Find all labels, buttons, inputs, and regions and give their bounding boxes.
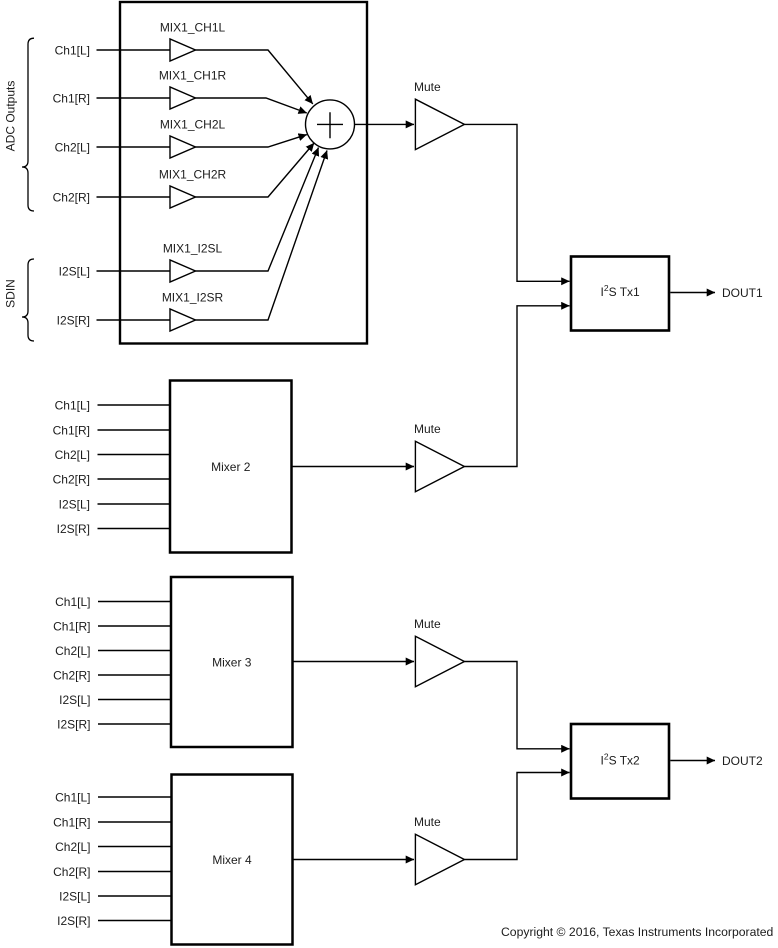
wire I2S Tx2 to DOUT2 <box>670 760 715 762</box>
label Ch1[L] (mixer3) <box>55 595 90 609</box>
summing node <box>306 100 355 149</box>
wire Ch2[R] into mixer2 <box>98 478 171 480</box>
svg-text:DOUT2: DOUT2 <box>722 754 763 768</box>
label Mixer 2 <box>211 460 251 474</box>
svg-text:Ch2[R]: Ch2[R] <box>53 865 90 879</box>
svg-text:I2S[R]: I2S[R] <box>57 522 90 536</box>
wire MIX1_I2SL to summing node <box>196 148 319 272</box>
label MIX1_CH1L <box>160 21 226 35</box>
svg-text:Ch2[L]: Ch2[L] <box>55 140 90 154</box>
svg-text:Mute: Mute <box>414 80 441 94</box>
label I2S[L] (mixer2) <box>59 497 90 511</box>
svg-text:MIX1_CH1R: MIX1_CH1R <box>159 69 227 83</box>
I2S Tx2 block <box>571 724 669 799</box>
svg-text:MIX1_CH2R: MIX1_CH2R <box>159 168 227 182</box>
mixer 3 block <box>171 577 293 747</box>
wire I2S[L] into mixer2 <box>98 503 171 505</box>
svg-text:Ch1[L]: Ch1[L] <box>55 595 90 609</box>
amplifier MIX1_CH1R <box>170 87 196 109</box>
wire I2S[L] into mixer3 <box>98 699 171 701</box>
brace ADC Outputs <box>22 38 34 211</box>
label I2S[R] (mixer2) <box>57 522 90 536</box>
svg-text:Ch1[R]: Ch1[R] <box>53 815 90 829</box>
svg-text:ADC Outputs: ADC Outputs <box>4 81 18 152</box>
wire mute3 to I2S Tx2 <box>464 662 569 749</box>
wire I2S[R] into mixer2 <box>98 528 171 530</box>
wire Ch2[L] into mixer4 <box>98 846 172 848</box>
wire Ch2[R] into mixer4 <box>98 871 172 873</box>
svg-text:I2S[L]: I2S[L] <box>59 264 90 278</box>
wire mixer4 to mute4 <box>293 859 415 861</box>
label I2S[L] (mixer4) <box>59 889 90 903</box>
amplifier MIX1_I2SR <box>170 309 196 331</box>
wire MIX1_CH1L to summing node <box>196 50 313 104</box>
svg-text:MIX1_I2SR: MIX1_I2SR <box>162 291 224 305</box>
svg-text:MIX1_I2SL: MIX1_I2SL <box>163 242 223 256</box>
wire Ch1[L] into mixer4 <box>98 796 172 798</box>
wire Ch1[R] into mixer1 <box>97 97 171 99</box>
svg-text:Ch2[L]: Ch2[L] <box>55 840 90 854</box>
wire mixer3 to mute3 <box>293 661 414 663</box>
svg-text:Ch1[L]: Ch1[L] <box>55 398 90 412</box>
wire mixer2 to mute2 <box>292 466 414 468</box>
svg-text:Mute: Mute <box>414 815 441 829</box>
label I2S[R] (mixer1) <box>57 313 90 327</box>
label I2S[R] (mixer3) <box>57 717 90 731</box>
svg-text:Ch2[L]: Ch2[L] <box>55 644 90 658</box>
svg-text:I2S[L]: I2S[L] <box>59 889 90 903</box>
wire Ch1[R] into mixer3 <box>98 625 171 627</box>
svg-text:I2S[L]: I2S[L] <box>59 693 90 707</box>
label I2S[L] (mixer1) <box>59 264 90 278</box>
wire I2S[L] into mixer4 <box>98 895 172 897</box>
label Ch1[L] (mixer2) <box>55 398 90 412</box>
svg-text:Ch2[L]: Ch2[L] <box>55 448 90 462</box>
wire Ch2[L] into mixer1 <box>97 146 171 148</box>
label Ch2[L] (mixer1) <box>55 140 90 154</box>
svg-text:Mute: Mute <box>414 422 441 436</box>
label I2S Tx2 <box>601 752 641 768</box>
wire I2S[R] into mixer3 <box>98 723 171 725</box>
svg-text:Mute: Mute <box>414 617 441 631</box>
wire Ch2[R] into mixer3 <box>98 674 171 676</box>
label Ch1[R] (mixer2) <box>53 423 90 437</box>
label Ch1[R] (mixer4) <box>53 815 90 829</box>
svg-text:Ch2[R]: Ch2[R] <box>53 472 90 486</box>
svg-text:MIX1_CH1L: MIX1_CH1L <box>160 21 226 35</box>
svg-text:Copyright © 2016, Texas Instru: Copyright © 2016, Texas Instruments Inco… <box>501 925 773 939</box>
label Mute (mute4) <box>414 815 441 829</box>
label MIX1_I2SR <box>162 291 224 305</box>
label MIX1_CH2R <box>159 168 227 182</box>
wire Ch1[L] into mixer3 <box>98 601 171 603</box>
label ADC Outputs <box>4 81 18 152</box>
svg-text:Ch2[R]: Ch2[R] <box>53 668 90 682</box>
label Mute (mute3) <box>414 617 441 631</box>
label Mute (mute2) <box>414 422 441 436</box>
label Ch2[L] (mixer4) <box>55 840 90 854</box>
wire mute1 to I2S Tx1 <box>464 124 569 281</box>
wire I2S Tx1 to DOUT1 <box>670 292 715 294</box>
mixer 4 block <box>172 775 293 945</box>
svg-text:Ch1[R]: Ch1[R] <box>53 619 90 633</box>
amplifier mute2 <box>415 441 464 491</box>
label Ch1[L] (mixer1) <box>55 43 90 57</box>
label Ch2[R] (mixer1) <box>53 190 90 204</box>
wire MIX1_CH2L to summing node <box>196 135 307 147</box>
label SDIN <box>4 279 18 308</box>
wire Ch1[R] into mixer4 <box>98 821 172 823</box>
amplifier MIX1_I2SL <box>170 260 196 282</box>
svg-text:Mixer 3: Mixer 3 <box>212 655 252 669</box>
svg-text:Mixer 4: Mixer 4 <box>212 853 252 867</box>
label MIX1_CH2L <box>160 118 226 132</box>
amplifier mute3 <box>415 636 464 686</box>
label DOUT2 <box>722 754 763 768</box>
wire I2S[R] into mixer1 <box>97 319 171 321</box>
mixer 2 block <box>170 381 292 553</box>
svg-text:Ch1[L]: Ch1[L] <box>55 43 90 57</box>
label Mute (mute1) <box>414 80 441 94</box>
label Ch1[R] (mixer1) <box>53 91 90 105</box>
label Ch1[L] (mixer4) <box>55 790 90 804</box>
wire Ch1[L] into mixer2 <box>98 404 171 406</box>
wire MIX1_CH1R to summing node <box>196 98 307 113</box>
amplifier MIX1_CH2R <box>170 186 196 208</box>
wire Ch1[R] into mixer2 <box>98 429 171 431</box>
amplifier mute1 <box>415 99 464 149</box>
label MIX1_I2SL <box>163 242 223 256</box>
svg-text:Ch1[R]: Ch1[R] <box>53 91 90 105</box>
wire Ch2[L] into mixer2 <box>98 454 171 456</box>
svg-text:I2S[R]: I2S[R] <box>57 717 90 731</box>
label Ch1[R] (mixer3) <box>53 619 90 633</box>
wire mute4 to I2S Tx2 <box>464 773 569 860</box>
label Mixer 4 <box>212 853 252 867</box>
amplifier MIX1_CH1L <box>170 39 196 61</box>
wire I2S[R] into mixer4 <box>98 920 172 922</box>
I2S Tx1 block <box>571 257 669 331</box>
label Ch2[R] (mixer3) <box>53 668 90 682</box>
amplifier MIX1_CH2L <box>170 136 196 158</box>
label Ch2[R] (mixer2) <box>53 472 90 486</box>
wire I2S[L] into mixer1 <box>97 270 171 272</box>
wire Ch2[L] into mixer3 <box>98 650 171 652</box>
wire mute2 to I2S Tx1 <box>464 306 569 467</box>
wire MIX1_I2SR to summing node <box>196 151 328 321</box>
svg-text:MIX1_CH2L: MIX1_CH2L <box>160 118 226 132</box>
svg-text:DOUT1: DOUT1 <box>722 286 763 300</box>
label I2S[R] (mixer4) <box>57 914 90 928</box>
wire summing node to mute1 <box>355 123 415 125</box>
svg-text:I2S[R]: I2S[R] <box>57 313 90 327</box>
label Ch2[L] (mixer2) <box>55 448 90 462</box>
svg-text:Ch2[R]: Ch2[R] <box>53 190 90 204</box>
label Ch2[R] (mixer4) <box>53 865 90 879</box>
label I2S[L] (mixer3) <box>59 693 90 707</box>
svg-text:Mixer 2: Mixer 2 <box>211 460 251 474</box>
svg-text:SDIN: SDIN <box>4 279 18 308</box>
label copyright <box>501 925 773 939</box>
label I2S Tx1 <box>601 283 641 299</box>
wire Ch2[R] into mixer1 <box>97 196 171 198</box>
svg-text:I2S[R]: I2S[R] <box>57 914 90 928</box>
brace SDIN <box>22 259 34 341</box>
svg-text:Ch1[R]: Ch1[R] <box>53 423 90 437</box>
svg-text:Ch1[L]: Ch1[L] <box>55 790 90 804</box>
label Mixer 3 <box>212 655 252 669</box>
label Ch2[L] (mixer3) <box>55 644 90 658</box>
svg-text:I2S[L]: I2S[L] <box>59 497 90 511</box>
mixer 1 block outline <box>120 2 367 344</box>
wire MIX1_CH2R to summing node <box>196 143 315 197</box>
amplifier mute4 <box>415 834 464 884</box>
wire Ch1[L] into mixer1 <box>97 49 171 51</box>
label DOUT1 <box>722 286 763 300</box>
label MIX1_CH1R <box>159 69 227 83</box>
